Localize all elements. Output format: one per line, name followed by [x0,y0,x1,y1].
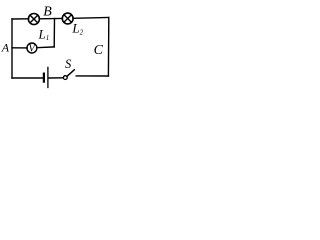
svg-text:1: 1 [46,34,50,42]
svg-text:B: B [43,4,52,19]
svg-text:C: C [94,43,104,58]
svg-text:2: 2 [80,28,84,36]
svg-text:L: L [38,27,46,42]
svg-text:L: L [71,21,79,36]
svg-text:S: S [65,57,72,71]
svg-text:A: A [1,40,10,54]
